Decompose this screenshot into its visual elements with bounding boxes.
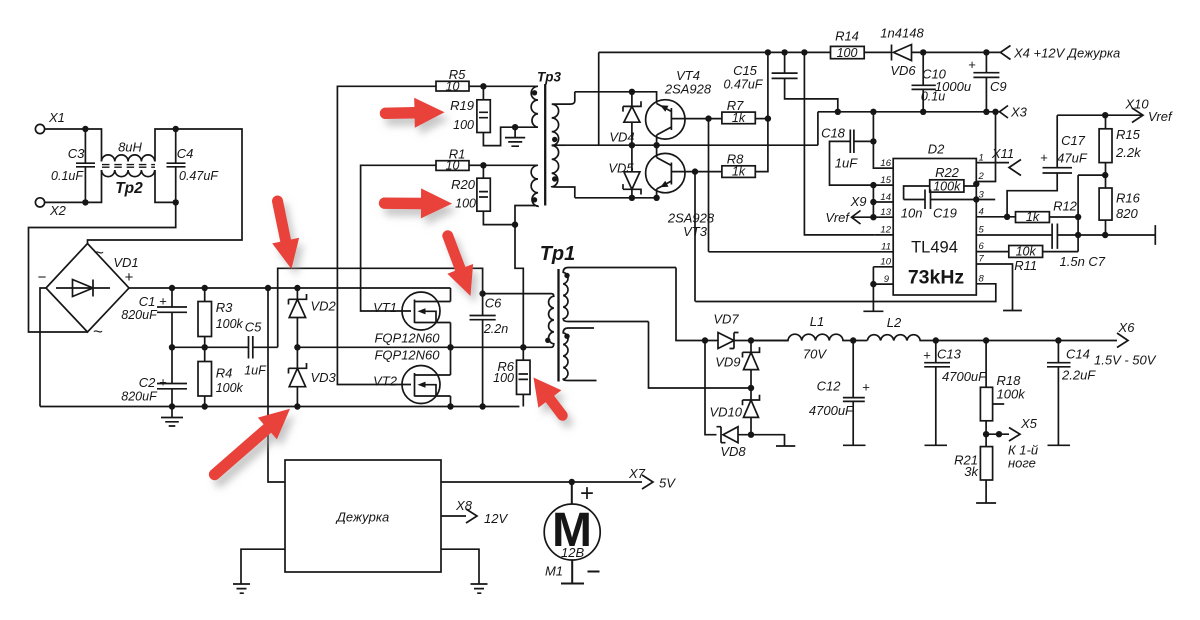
svg-text:0.47uF: 0.47uF	[179, 169, 219, 183]
wire R19 bottom to winding return	[483, 127, 538, 145]
node Tp3 lower return	[512, 221, 518, 227]
svg-text:X3: X3	[1010, 105, 1028, 120]
node pin2	[973, 181, 979, 187]
svg-text:100: 100	[453, 118, 474, 132]
svg-text:5V: 5V	[659, 476, 676, 491]
capacitor C3 0.1uF	[51, 129, 95, 202]
transformer Tp1	[540, 243, 576, 382]
wire pin8 riser to VT3 base	[694, 172, 696, 302]
svg-text:7: 7	[979, 254, 985, 265]
node VT3 base pin8	[692, 168, 698, 174]
resistor R19 100	[450, 86, 490, 132]
svg-text:4: 4	[979, 206, 984, 217]
resistor R20 100	[451, 165, 490, 211]
svg-text:R22: R22	[935, 165, 960, 180]
pin 2 riser to X3 line	[976, 112, 995, 182]
node VT4 base pin11	[705, 115, 711, 121]
connector X11	[991, 146, 1021, 176]
node C18 right on riser	[870, 138, 876, 144]
connector X5	[986, 416, 1038, 471]
ground VD8 stub	[751, 435, 795, 446]
connector X7	[628, 466, 676, 491]
svg-text:Tp1: Tp1	[540, 243, 576, 265]
svg-text:C6: C6	[485, 296, 502, 311]
svg-text:10: 10	[446, 79, 460, 93]
svg-text:+: +	[159, 294, 167, 309]
svg-text:VT2: VT2	[373, 374, 398, 389]
svg-text:15: 15	[880, 175, 891, 186]
terminator pin5 line	[1154, 225, 1156, 245]
svg-text:VD7: VD7	[713, 312, 739, 327]
svg-text:12V: 12V	[484, 511, 508, 526]
node R18 R21 junction	[983, 431, 989, 437]
svg-text:3k: 3k	[964, 464, 979, 479]
wire mid rail to C5	[172, 346, 249, 348]
node C1 C2 mid	[169, 344, 175, 350]
svg-text:10: 10	[446, 159, 460, 173]
capacitor C15 0.47uF	[724, 52, 838, 111]
capacitor C19 10n	[901, 190, 995, 221]
svg-text:10n: 10n	[901, 206, 923, 221]
node C6 top	[479, 290, 485, 296]
node VD4 bottom	[629, 142, 635, 148]
svg-text:1000u: 1000u	[935, 79, 971, 94]
diode VD3	[289, 347, 337, 406]
node C15 drop on X3 line	[835, 109, 841, 115]
ground Tp3 tap	[505, 127, 525, 146]
svg-text:0.47uF: 0.47uF	[724, 78, 764, 92]
op-amp U1 TL494 chip box D2	[893, 142, 976, 296]
svg-text:C5: C5	[245, 320, 262, 335]
node R15 R16 mid	[1102, 172, 1108, 178]
capacitor C9 1000u	[935, 52, 1007, 111]
diode VD4	[609, 92, 641, 145]
node C13 top	[933, 337, 939, 343]
node VT3 emitter	[653, 195, 659, 201]
node pin15	[870, 182, 876, 188]
svg-text:4700uF: 4700uF	[809, 403, 854, 418]
svg-text:C13: C13	[937, 347, 962, 362]
wire drive ground mid line	[565, 144, 818, 146]
svg-text:820: 820	[1116, 206, 1138, 221]
svg-text:1uF: 1uF	[835, 156, 858, 171]
node pin14 X9	[870, 199, 876, 205]
node VT1 source VT2 drain	[447, 344, 453, 350]
svg-text:Tp2: Tp2	[115, 180, 143, 197]
Tp3 right winding	[552, 92, 575, 198]
node winding ground tap	[512, 124, 518, 130]
svg-text:R20: R20	[451, 177, 476, 192]
wire secondary return to VD9 VD10 mid	[649, 322, 752, 389]
svg-text:8uH: 8uH	[118, 140, 142, 155]
connector X4	[1000, 46, 1120, 61]
svg-text:4700uF: 4700uF	[942, 369, 987, 384]
wire pin12 VCC riser	[804, 52, 874, 235]
svg-text:12B: 12B	[561, 545, 584, 560]
node pin2 riser	[992, 109, 998, 115]
resistor R21 3k	[954, 434, 996, 503]
node VD2 VD3 mid	[294, 344, 300, 350]
node C9 bottom	[983, 109, 989, 115]
capacitor C14 2.2uF	[1047, 341, 1096, 446]
svg-text:R3: R3	[216, 300, 233, 315]
svg-text:+: +	[159, 375, 167, 390]
svg-text:VD3: VD3	[311, 370, 337, 385]
resistor R14 100	[831, 29, 892, 61]
svg-text:100: 100	[837, 46, 858, 60]
Tp1 primary winding	[483, 294, 554, 348]
svg-text:C9: C9	[990, 79, 1007, 94]
svg-text:X11: X11	[991, 146, 1014, 161]
Tp1 secondary bottom winding	[563, 328, 596, 381]
svg-text:R11: R11	[1014, 258, 1037, 273]
connector X1	[35, 110, 65, 134]
svg-text:+: +	[1040, 150, 1048, 165]
svg-text:47uF: 47uF	[1057, 151, 1088, 166]
node C2 bottom	[169, 403, 175, 409]
node pin4 C17 junction	[1004, 214, 1010, 220]
node R4 bottom	[202, 403, 208, 409]
svg-text:X2: X2	[49, 203, 67, 218]
wire plus rail	[129, 287, 451, 289]
ground standby right	[441, 549, 488, 593]
pin 12	[875, 225, 893, 236]
svg-text:Vref: Vref	[825, 210, 850, 225]
resistor R4 100k	[198, 347, 244, 406]
inductor L2	[867, 315, 1117, 341]
connector X9	[850, 194, 894, 209]
diode VD8	[717, 427, 752, 459]
resistor R16 820	[1099, 175, 1141, 235]
wire R12 R11 riser	[1078, 175, 1105, 252]
svg-text:C17: C17	[1061, 133, 1086, 148]
capacitor C1 820uF	[121, 288, 187, 347]
resistor R5 10	[436, 67, 483, 93]
svg-text:6: 6	[979, 241, 985, 252]
node riser pin5 line	[1075, 232, 1081, 238]
svg-text:+: +	[125, 269, 134, 286]
resistor R22 100k	[904, 165, 977, 200]
svg-text:M1: M1	[545, 564, 563, 579]
svg-text:0.1uF: 0.1uF	[51, 169, 84, 183]
transistor VT4 2SA928	[646, 68, 722, 145]
resistor R1 10	[436, 147, 483, 173]
svg-text:X9: X9	[850, 194, 867, 209]
pin 6	[976, 241, 1009, 252]
svg-text:1.5n C7: 1.5n C7	[1060, 254, 1106, 269]
transistor VT2 FQP12N60	[373, 347, 450, 406]
capacitor C4 0.47uF	[167, 129, 220, 202]
svg-text:L2: L2	[887, 315, 902, 330]
node pin12 rail	[801, 49, 807, 55]
connector X10 Vref	[1124, 97, 1173, 125]
resistor R6 100	[493, 347, 530, 406]
svg-text:C18: C18	[821, 126, 846, 141]
motor M1 12V	[544, 480, 600, 584]
node C15 top	[781, 49, 787, 55]
node R3 top	[202, 285, 208, 291]
resistor R3 100k	[198, 288, 244, 347]
svg-text:VD2: VD2	[311, 299, 337, 314]
svg-text:70V: 70V	[803, 347, 827, 362]
red arrow at R20	[379, 188, 452, 218]
svg-text:D2: D2	[928, 142, 945, 157]
svg-text:1k: 1k	[1026, 210, 1040, 224]
svg-text:C12: C12	[817, 379, 842, 394]
node C6 bottom	[479, 403, 485, 409]
wire primary return loop	[278, 268, 483, 347]
node R16 bottom	[1102, 232, 1108, 238]
node VD3 bottom	[294, 403, 300, 409]
svg-text:1.5V - 50V: 1.5V - 50V	[1094, 353, 1157, 368]
svg-text:100k: 100k	[216, 381, 244, 395]
svg-text:14: 14	[880, 192, 891, 203]
node C10 bottom	[920, 109, 926, 115]
svg-text:16: 16	[880, 158, 891, 169]
capacitor C10 0.1u	[912, 52, 947, 111]
svg-text:R14: R14	[835, 29, 859, 44]
pin 4	[976, 206, 1015, 217]
svg-text:~: ~	[93, 322, 103, 341]
svg-text:C4: C4	[177, 146, 194, 161]
pin 9	[873, 274, 893, 285]
svg-text:VD1: VD1	[113, 255, 138, 270]
svg-text:R4: R4	[216, 366, 233, 381]
wire R7 node to top rail	[767, 52, 769, 118]
svg-text:C15: C15	[733, 63, 758, 78]
node motor plus	[569, 479, 575, 485]
transistor VT3 2SA928	[646, 146, 722, 239]
diode VD10	[709, 388, 759, 435]
wire half-bridge mid rail	[297, 346, 523, 348]
svg-text:X1: X1	[48, 110, 65, 125]
wire R20 bottom to winding	[483, 211, 515, 224]
svg-text:R12: R12	[1053, 199, 1078, 214]
Tp3 left bottom winding	[483, 165, 538, 224]
svg-text:+: +	[923, 348, 931, 363]
node pin13 Vref	[870, 214, 876, 220]
node VT4 collector	[653, 142, 659, 148]
svg-text:TL494: TL494	[911, 239, 958, 257]
resistor R15 2.2k	[1099, 115, 1142, 175]
pin 7 ground stub	[976, 254, 1022, 311]
wire X1 to filter	[45, 129, 102, 162]
node VD5 bottom	[629, 195, 635, 201]
red arrow at C6	[442, 230, 473, 296]
svg-text:2.2k: 2.2k	[1115, 145, 1142, 160]
wire VT2 gate from R5	[337, 86, 436, 384]
svg-text:100: 100	[493, 371, 514, 385]
node pin9 tie	[870, 281, 876, 287]
node VD9 VD10 mid	[748, 385, 754, 391]
wire X3 line	[818, 112, 1000, 145]
svg-text:1k: 1k	[732, 165, 746, 179]
svg-text:+: +	[580, 480, 594, 507]
node C4 bottom	[173, 199, 179, 205]
node VD7 cathode	[748, 337, 754, 343]
svg-text:1: 1	[979, 152, 984, 163]
svg-text:X4 +12V Дежурка: X4 +12V Дежурка	[1013, 46, 1120, 61]
svg-text:Tp3: Tp3	[537, 70, 561, 85]
svg-text:+: +	[968, 57, 976, 72]
wire pin11 riser to VT4 base	[708, 119, 710, 252]
svg-text:L1: L1	[810, 314, 824, 329]
svg-text:820uF: 820uF	[121, 390, 158, 404]
wire R20 return to mid node	[515, 225, 523, 348]
node standby tap	[265, 285, 271, 291]
node R3 R4 mid	[202, 344, 208, 350]
svg-text:C19: C19	[933, 206, 957, 221]
svg-text:VT1: VT1	[373, 300, 397, 315]
svg-text:820uF: 820uF	[121, 308, 158, 322]
svg-text:12: 12	[880, 225, 891, 236]
resistor R11 10k	[1009, 244, 1078, 273]
svg-text:Vref: Vref	[1148, 109, 1173, 124]
connector X2	[35, 198, 66, 218]
node VD8 anode	[748, 432, 754, 438]
svg-text:3: 3	[979, 189, 985, 200]
svg-text:C14: C14	[1066, 347, 1090, 362]
red arrow at R6	[534, 378, 568, 421]
svg-text:R19: R19	[450, 98, 474, 113]
svg-text:X10: X10	[1124, 97, 1149, 112]
capacitor C2 820uF	[121, 347, 187, 406]
node R7 right	[765, 115, 771, 121]
connector X6	[1094, 320, 1157, 368]
pin 8 wire to VT3 base	[695, 273, 996, 301]
connector X8 12V	[441, 498, 508, 526]
svg-text:10: 10	[880, 257, 891, 268]
standby block Dezhurka	[285, 460, 441, 572]
svg-text:9: 9	[884, 274, 890, 285]
transistor VT1 FQP12N60	[373, 288, 450, 347]
node R5 R19 junction	[480, 83, 486, 89]
node R1 R20 junction	[480, 162, 486, 168]
pin 1	[976, 152, 1009, 163]
svg-text:VD5: VD5	[608, 161, 634, 176]
svg-text:2: 2	[978, 171, 985, 182]
svg-text:−: −	[38, 269, 47, 286]
svg-text:+: +	[862, 380, 870, 395]
capacitor C13 4700uF	[923, 341, 987, 446]
wire Tp3 bottom lead	[575, 197, 657, 199]
wire standby feed drop	[268, 288, 285, 482]
svg-text:1n4148: 1n4148	[880, 26, 924, 41]
ground under C2	[161, 407, 183, 427]
pin 5	[976, 225, 1052, 236]
diode VD2	[289, 288, 337, 347]
node C12 top	[850, 337, 856, 343]
wire C18 riser	[873, 112, 893, 168]
wire VD7 anode drop to VD8	[705, 341, 717, 435]
capacitor C17 47uF	[1007, 115, 1088, 217]
svg-text:VD9: VD9	[715, 355, 740, 370]
wire Vref X10 line	[1057, 114, 1143, 116]
red arrow at R19	[380, 98, 445, 128]
svg-text:73kHz: 73kHz	[908, 267, 965, 289]
capacitor C12 4700uF	[809, 341, 870, 446]
inductor L1 70V	[751, 314, 867, 362]
svg-text:R15: R15	[1116, 127, 1141, 142]
svg-text:10k: 10k	[1016, 244, 1037, 258]
svg-text:C1: C1	[139, 294, 156, 309]
resistor R7 1k	[722, 98, 768, 125]
node R18 top	[983, 337, 989, 343]
wire filter top-right to bridge	[88, 129, 243, 244]
node C4 top	[173, 126, 179, 132]
svg-text:FQP12N60: FQP12N60	[374, 348, 440, 363]
wire pins 9 10 tie and ground	[863, 267, 883, 312]
red arrow at VD3	[209, 409, 290, 480]
diode VD6 1n4148	[880, 26, 924, 79]
wire Vref chain pins 15 14 13	[872, 185, 874, 217]
svg-text:VD10: VD10	[709, 405, 742, 420]
capacitor C5 1uF	[244, 320, 267, 378]
transformer Tp3 core	[537, 70, 561, 206]
wire secondary top lead to VD7	[676, 268, 718, 341]
wire top rail	[599, 51, 831, 53]
node C14 top	[1055, 337, 1061, 343]
resistor R12 1k	[1016, 199, 1079, 224]
wire bridge minus to bottom rail	[40, 288, 46, 407]
wire top rail left drop	[598, 52, 600, 145]
wire Tp3 top lead to VT4 emitter	[575, 92, 657, 104]
node C9 top	[983, 49, 989, 55]
wire filter bottom-right to bridge	[29, 170, 176, 332]
node C1 top	[169, 285, 175, 291]
wire X7 output 5V	[441, 481, 642, 483]
wire C5 to primary loop riser	[253, 346, 278, 348]
svg-text:X8: X8	[455, 498, 473, 513]
wire VT1 gate from R1	[361, 165, 436, 311]
wire X2 to filter	[45, 170, 102, 202]
node R12 right	[1075, 214, 1081, 220]
node C10 top	[920, 49, 926, 55]
node VT2 source on bottom rail	[447, 403, 453, 409]
svg-text:C2: C2	[139, 375, 156, 390]
svg-text:X6: X6	[1118, 320, 1136, 335]
node X2-C3 junction	[82, 199, 88, 205]
svg-text:100k: 100k	[216, 317, 244, 331]
svg-text:C3: C3	[68, 146, 85, 161]
capacitor C18 1uF	[821, 126, 893, 186]
diode VD9	[715, 341, 759, 389]
pin 16	[875, 158, 893, 169]
svg-text:2SA928: 2SA928	[664, 82, 712, 97]
node pin3	[973, 196, 979, 202]
connector X3	[1000, 105, 1028, 120]
svg-text:5: 5	[979, 225, 985, 236]
node C18 riser on X3 line	[870, 109, 876, 115]
resistor R8 1k	[722, 119, 768, 179]
ground standby left	[233, 549, 285, 593]
bridge rectifier VD1	[38, 243, 139, 341]
wire VD6 to X4	[923, 51, 1000, 53]
svg-text:FQP12N60: FQP12N60	[374, 330, 440, 345]
pin 10	[873, 257, 893, 268]
svg-text:13: 13	[880, 207, 891, 218]
svg-text:100: 100	[455, 197, 476, 211]
svg-text:VD6: VD6	[890, 63, 916, 78]
svg-text:~: ~	[94, 243, 104, 262]
capacitor C6 2.2n	[470, 294, 509, 407]
svg-text:R16: R16	[1116, 191, 1141, 206]
diode VD5	[608, 145, 641, 198]
node X1-C3 junction	[82, 126, 88, 132]
svg-text:2.2n: 2.2n	[483, 322, 508, 336]
pin 11	[709, 242, 894, 253]
node R6 top primary bottom	[520, 344, 526, 350]
